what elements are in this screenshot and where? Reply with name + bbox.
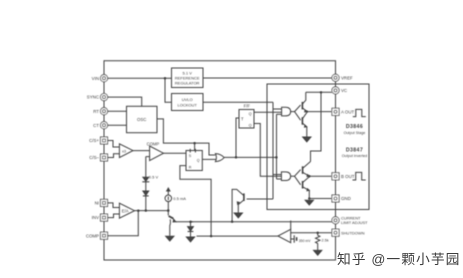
svg-text:VC: VC [341, 88, 347, 93]
svg-text:CT: CT [93, 123, 99, 128]
svg-text:LOCKOUT: LOCKOUT [178, 102, 198, 107]
svg-text:A OUT: A OUT [341, 109, 354, 114]
svg-text:VIN: VIN [92, 76, 99, 81]
svg-text:COMP: COMP [147, 141, 160, 146]
svg-text:GND: GND [341, 196, 351, 201]
svg-text:Q: Q [249, 123, 252, 127]
svg-text:B OUT: B OUT [341, 174, 355, 179]
svg-text:R: R [189, 165, 192, 169]
svg-text:0.5 mA: 0.5 mA [173, 196, 186, 201]
svg-text:2.5k: 2.5k [322, 238, 329, 242]
svg-text:Output Stage: Output Stage [344, 131, 366, 135]
svg-text:UVLO: UVLO [182, 97, 193, 102]
svg-text:REGULATOR: REGULATOR [175, 80, 200, 85]
svg-text:F/F: F/F [244, 103, 251, 108]
svg-text:S: S [189, 154, 192, 158]
svg-text:知乎 @一颗小芋园: 知乎 @一颗小芋园 [337, 251, 460, 267]
svg-text:RT: RT [93, 109, 99, 114]
svg-text:D3847: D3847 [346, 147, 363, 153]
svg-text:x3: x3 [122, 150, 126, 154]
svg-text:Q: Q [249, 112, 252, 116]
svg-text:C/S–: C/S– [89, 155, 99, 160]
svg-text:SHUTDOWN: SHUTDOWN [341, 230, 365, 235]
svg-text:VREF: VREF [341, 75, 353, 80]
svg-text:C/S+: C/S+ [89, 138, 99, 143]
svg-text:Output Inverted: Output Inverted [342, 154, 367, 158]
svg-text:INV: INV [92, 215, 99, 220]
svg-text:D3846: D3846 [346, 124, 363, 130]
svg-text:NI: NI [95, 201, 99, 206]
svg-text:OSC: OSC [137, 117, 146, 122]
svg-text:T: T [241, 117, 244, 122]
svg-text:0.5 V: 0.5 V [149, 175, 159, 180]
svg-text:E/A: E/A [122, 209, 129, 214]
svg-text:350 mV: 350 mV [299, 239, 311, 243]
svg-text:COMP: COMP [86, 233, 99, 238]
svg-text:Q: Q [197, 159, 200, 163]
svg-text:SYNC: SYNC [87, 95, 99, 100]
svg-text:LIMIT ADJUST: LIMIT ADJUST [341, 220, 368, 225]
